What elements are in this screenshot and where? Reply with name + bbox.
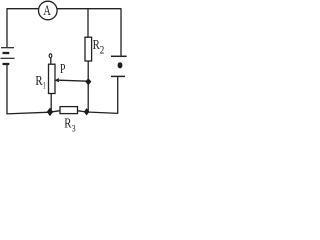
svg-text:3: 3 — [72, 125, 76, 132]
svg-text:1: 1 — [43, 82, 46, 92]
svg-text:R: R — [64, 116, 72, 131]
svg-text:R: R — [35, 74, 43, 89]
svg-text:2: 2 — [100, 44, 105, 56]
svg-text:P: P — [60, 62, 66, 77]
svg-text:A: A — [43, 3, 51, 19]
